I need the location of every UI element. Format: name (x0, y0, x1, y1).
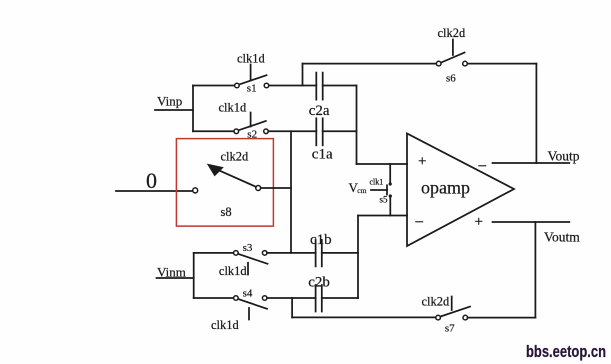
svg-text:Voutm: Voutm (544, 230, 580, 245)
wire bottom rail left of s7 (292, 316, 436, 318)
wire s1 input segment (193, 85, 234, 87)
svg-text:clk1d: clk1d (237, 52, 266, 66)
wire Vcm lead (371, 189, 387, 191)
switch s5 (387, 164, 392, 216)
svg-text:clk1: clk1 (370, 178, 384, 187)
svg-text:cm: cm (357, 186, 366, 195)
switch s3 (234, 251, 268, 275)
svg-text:bbs.eetop.cn: bbs.eetop.cn (526, 342, 606, 361)
svg-text:s7: s7 (445, 323, 455, 335)
svg-text:clk1d: clk1d (219, 101, 248, 115)
svg-text:s3: s3 (243, 242, 253, 254)
label Vcm (349, 180, 367, 195)
node Vinp input lead wire (155, 109, 193, 111)
wire c2b right plate to summing node (322, 297, 358, 299)
capacitor c2a (316, 73, 322, 100)
wire s3 input segment (194, 252, 234, 254)
wire s4 output to c2b (267, 297, 316, 299)
svg-text:clk2d: clk2d (438, 26, 467, 40)
switch s8 (193, 164, 261, 193)
wire s1 output to c2a (269, 85, 317, 87)
wire op-amp + input (357, 163, 408, 165)
wire c1b right plate to summing node (322, 252, 358, 254)
wire s4 input segment (194, 297, 234, 299)
wire summing node vertical (top) (356, 86, 358, 165)
svg-text:+: + (418, 154, 426, 170)
svg-text:s8: s8 (221, 205, 232, 219)
switch s1 (235, 65, 269, 88)
svg-text:0: 0 (146, 168, 157, 193)
capacitor c1b (316, 240, 322, 267)
svg-text:clk1d: clk1d (211, 318, 240, 332)
svg-text:opamp: opamp (421, 178, 470, 198)
svg-text:Vinm: Vinm (157, 265, 186, 280)
op-amp U1 (407, 134, 514, 247)
svg-text:Voutp: Voutp (548, 149, 580, 164)
node Vinm input lead wire (157, 277, 194, 279)
wire top rail left of s6 (303, 63, 437, 65)
wire joining s2 and s3 rows (290, 131, 292, 253)
wire Voutp output (493, 162, 570, 164)
switch s2 (234, 113, 268, 134)
wire bottom rail right of s7 (468, 317, 536, 319)
svg-text:clk2d: clk2d (221, 150, 250, 164)
svg-text:Vinp: Vinp (157, 94, 182, 109)
capacitor c1a (316, 118, 322, 145)
switch s7 (436, 297, 470, 320)
svg-text:s1: s1 (247, 83, 257, 95)
svg-text:clk1d: clk1d (219, 264, 248, 278)
wire Vinp vertical branch (192, 86, 194, 132)
wire op-amp - input (358, 215, 407, 217)
svg-text:+: + (475, 214, 483, 230)
svg-text:c2b: c2b (308, 275, 330, 291)
svg-text:–: – (415, 214, 424, 230)
wire junction up to s6 rail (302, 64, 304, 86)
wire Vinm vertical branch (193, 253, 195, 298)
wire c2a right plate to summing node (323, 85, 357, 87)
svg-text:c2a: c2a (309, 103, 330, 119)
wire s2 input segment (193, 130, 234, 132)
wire s3 output to c1b (267, 252, 316, 254)
svg-text:clk2d: clk2d (422, 295, 451, 309)
switch s4 (234, 296, 267, 320)
svg-text:c1a: c1a (312, 147, 333, 163)
wire c2b junction down to bottom rail (291, 298, 293, 317)
red highlight box around s8 (176, 139, 273, 227)
capacitor c2b (316, 285, 322, 312)
svg-text:–: – (478, 158, 487, 174)
wire feedback vertical to Voutp (535, 64, 537, 163)
svg-text:s5: s5 (380, 195, 389, 205)
wire Voutm output (493, 221, 570, 223)
svg-text:s6: s6 (446, 73, 456, 85)
switch s6 (436, 40, 467, 66)
wire s8 output to c1 node (261, 187, 291, 189)
wire top rail right of s6 (467, 63, 536, 65)
wire feedback vertical to Voutm (534, 222, 536, 318)
wire s2 output to c1a (268, 130, 316, 132)
wire c1a right plate to summing node (323, 130, 357, 132)
node 0 input lead (116, 190, 192, 192)
svg-text:s4: s4 (243, 288, 253, 300)
wire summing node vertical (bottom) (357, 216, 359, 299)
svg-text:c1b: c1b (310, 232, 332, 248)
